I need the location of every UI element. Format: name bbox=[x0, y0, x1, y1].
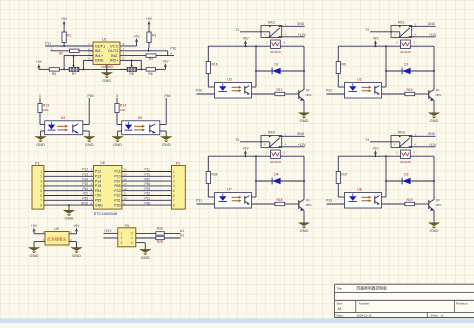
svg-text:4: 4 bbox=[131, 236, 133, 240]
title block bbox=[335, 284, 474, 317]
svg-text:Q1: Q1 bbox=[436, 88, 440, 92]
svg-text:1: 1 bbox=[121, 232, 123, 236]
svg-text:P33: P33 bbox=[145, 187, 151, 191]
svg-text:P10: P10 bbox=[114, 175, 120, 179]
ground (U4 LED) bbox=[35, 131, 46, 147]
svg-text:+5V: +5V bbox=[134, 34, 141, 38]
svg-text:P57: P57 bbox=[145, 177, 151, 181]
svg-text:NPN: NPN bbox=[306, 93, 312, 97]
svg-text:4: 4 bbox=[173, 184, 175, 188]
svg-text:R4: R4 bbox=[149, 57, 153, 61]
node T3 bbox=[235, 138, 239, 142]
wire OUT2 / node P10 bbox=[126, 46, 177, 51]
svg-text:P56: P56 bbox=[114, 184, 120, 188]
relay RK4 coil HK4100 bbox=[266, 150, 286, 164]
svg-text:RK1: RK1 bbox=[398, 21, 405, 25]
svg-text:+5V: +5V bbox=[31, 224, 38, 228]
svg-text:Date:: Date: bbox=[337, 313, 344, 317]
svg-text:R6: R6 bbox=[148, 72, 152, 76]
svg-text:P12: P12 bbox=[95, 170, 101, 174]
svg-text:2: 2 bbox=[173, 175, 175, 179]
ground (U5 emitter) bbox=[160, 131, 172, 147]
node +12V (contact) bbox=[298, 143, 307, 147]
svg-text:Number: Number bbox=[359, 302, 370, 306]
transistor Q3 NPN bbox=[429, 156, 442, 211]
node P30 bbox=[196, 89, 215, 95]
svg-text:7: 7 bbox=[173, 199, 175, 203]
wire coil rail bbox=[338, 45, 434, 47]
svg-text:HK4100: HK4100 bbox=[270, 160, 281, 164]
ground (Q3 emitter) bbox=[429, 211, 440, 234]
svg-text:GND: GND bbox=[428, 22, 436, 26]
svg-text:R19: R19 bbox=[406, 198, 412, 202]
node +12V (contact) bbox=[429, 33, 438, 37]
wire opto collector to rail bbox=[382, 46, 387, 87]
svg-text:13: 13 bbox=[123, 182, 127, 186]
svg-text:P1: P1 bbox=[35, 161, 39, 165]
ground (U9 pin2) bbox=[29, 238, 46, 258]
svg-text:A4: A4 bbox=[338, 307, 342, 311]
svg-text:D4: D4 bbox=[274, 172, 278, 176]
resistor R1 bbox=[62, 32, 71, 46]
svg-text:GND: GND bbox=[162, 142, 171, 147]
resistor R6 bbox=[146, 68, 165, 77]
svg-text:1: 1 bbox=[40, 170, 42, 174]
node T1 bbox=[235, 28, 239, 32]
mcu U6 STC11W2048 bbox=[93, 161, 122, 216]
svg-text:NPN: NPN bbox=[306, 203, 312, 207]
svg-text:RK3: RK3 bbox=[398, 131, 405, 135]
svg-text:16: 16 bbox=[123, 168, 127, 172]
node T2 bbox=[365, 28, 369, 32]
optocoupler U4 bbox=[45, 116, 83, 135]
resistor R36 bbox=[206, 156, 218, 197]
svg-text:R13: R13 bbox=[43, 104, 49, 108]
svg-text:P2: P2 bbox=[176, 161, 180, 165]
svg-text:8: 8 bbox=[40, 203, 42, 207]
svg-text:5: 5 bbox=[40, 189, 42, 193]
svg-text:GND: GND bbox=[300, 228, 309, 233]
svg-text:R3: R3 bbox=[152, 34, 156, 38]
ground (Q4 emitter) bbox=[299, 211, 310, 234]
svg-text:GND: GND bbox=[85, 142, 94, 147]
node GND (contact) bbox=[297, 22, 305, 26]
resistor R18 bbox=[252, 198, 299, 206]
svg-text:+12V: +12V bbox=[429, 33, 438, 37]
svg-text:GND: GND bbox=[81, 201, 89, 205]
svg-text:GND: GND bbox=[72, 253, 81, 258]
svg-text:R17: R17 bbox=[276, 88, 282, 92]
svg-text:GND: GND bbox=[141, 255, 150, 260]
wire opto collector to rail bbox=[252, 156, 257, 197]
wire U6 pin12 to P2 (P33) bbox=[122, 187, 172, 191]
ground (Q1 emitter) bbox=[429, 101, 440, 124]
wire P1-1 to U6 (P12) bbox=[44, 168, 94, 172]
power +5V (RK4 coil) bbox=[242, 146, 249, 156]
svg-text:P55: P55 bbox=[95, 199, 101, 203]
svg-text:12: 12 bbox=[123, 187, 127, 191]
svg-text:T2: T2 bbox=[365, 28, 369, 32]
svg-text:P10: P10 bbox=[145, 173, 151, 177]
resistor R9 bbox=[336, 46, 346, 87]
svg-text:P31: P31 bbox=[145, 197, 151, 201]
transistor Q2 NPN bbox=[299, 46, 312, 101]
wire coil rail bbox=[208, 155, 304, 157]
svg-text:+12V: +12V bbox=[429, 143, 438, 147]
svg-text:P55: P55 bbox=[82, 197, 88, 201]
resistor R37 bbox=[336, 156, 348, 197]
node P33 bbox=[326, 199, 345, 205]
svg-text:U9: U9 bbox=[54, 227, 59, 231]
power +5V (U9 pin1) bbox=[31, 224, 45, 234]
svg-text:P11: P11 bbox=[145, 168, 151, 172]
svg-text:Q4: Q4 bbox=[306, 198, 310, 202]
ground (U5 LED) bbox=[112, 131, 123, 147]
resistor R5 bbox=[49, 68, 69, 77]
svg-text:U2: U2 bbox=[357, 78, 362, 82]
resistor R28 bbox=[136, 227, 184, 235]
wire U6 pin13 to P2 (P56) bbox=[122, 182, 172, 186]
svg-text:6: 6 bbox=[173, 194, 175, 198]
svg-text:NPN: NPN bbox=[436, 203, 442, 207]
wire U6 pin16 to P2 (P11) bbox=[122, 168, 172, 172]
svg-text:Size: Size bbox=[337, 302, 343, 306]
svg-text:R28: R28 bbox=[157, 227, 163, 231]
transistor Q1 NPN bbox=[429, 46, 442, 101]
node P53 bbox=[83, 94, 94, 125]
svg-text:GND: GND bbox=[30, 253, 39, 258]
svg-text:P33: P33 bbox=[114, 189, 120, 193]
svg-text:of: of bbox=[441, 313, 444, 317]
svg-text:U4: U4 bbox=[61, 116, 66, 120]
svg-text:4: 4 bbox=[40, 184, 42, 188]
resistor R17 bbox=[252, 88, 299, 96]
module U9 (IR receiver) bbox=[45, 227, 69, 245]
svg-text:四路继电器控制板: 四路继电器控制板 bbox=[357, 286, 388, 291]
svg-text:3: 3 bbox=[116, 94, 118, 98]
resistor R19 bbox=[382, 198, 429, 206]
wire P1-8 to U6 (GND) bbox=[44, 201, 94, 205]
optocoupler U7 bbox=[215, 188, 252, 209]
svg-text:11: 11 bbox=[123, 192, 126, 196]
svg-text:P32: P32 bbox=[326, 89, 332, 93]
svg-text:+12V: +12V bbox=[298, 33, 307, 37]
svg-text:A2: A2 bbox=[180, 234, 184, 238]
svg-text:+5V: +5V bbox=[36, 60, 43, 64]
optocoupler U2 bbox=[345, 78, 382, 99]
svg-text:GND: GND bbox=[36, 142, 45, 147]
svg-text:14: 14 bbox=[123, 177, 127, 181]
svg-text:Sheet: Sheet bbox=[430, 313, 438, 317]
svg-text:+5V: +5V bbox=[95, 194, 102, 198]
wire U6 pin11 to P2 (P32) bbox=[122, 192, 172, 196]
resistor R16 bbox=[206, 46, 218, 87]
wire GND pin4 bbox=[83, 60, 93, 69]
svg-text:P30: P30 bbox=[196, 89, 202, 93]
svg-text:8: 8 bbox=[173, 203, 175, 207]
resistor R13 10K bbox=[38, 104, 50, 125]
svg-text:5: 5 bbox=[121, 241, 123, 245]
svg-text:GND: GND bbox=[297, 22, 305, 26]
node GND (contact) bbox=[428, 22, 436, 26]
svg-text:R16: R16 bbox=[212, 63, 218, 67]
svg-text:2: 2 bbox=[131, 232, 133, 236]
node GND (contact) bbox=[297, 132, 305, 136]
svg-text:10K: 10K bbox=[43, 108, 49, 112]
relay RK3 coil HK4100 bbox=[396, 150, 416, 164]
wire IN1+ bbox=[64, 55, 93, 70]
svg-text:R29: R29 bbox=[157, 240, 163, 244]
wire U6 pin9 to P2 (P30) bbox=[122, 201, 172, 205]
power +5V (divider left) bbox=[36, 60, 49, 69]
svg-text:R18: R18 bbox=[276, 198, 282, 202]
svg-text:GND: GND bbox=[65, 216, 74, 221]
diode D3 bbox=[386, 172, 435, 184]
transistor Q4 NPN bbox=[299, 156, 312, 211]
svg-text:15: 15 bbox=[123, 173, 127, 177]
svg-text:+12V: +12V bbox=[104, 229, 113, 233]
svg-text:T1: T1 bbox=[235, 28, 239, 32]
svg-text:P31: P31 bbox=[114, 199, 120, 203]
relay RK1 contacts bbox=[370, 21, 436, 38]
wire U6 pin10 to P2 (P31) bbox=[122, 197, 172, 201]
resistor R15 bbox=[382, 88, 429, 96]
svg-text:STC11W2048: STC11W2048 bbox=[94, 212, 118, 216]
svg-text:GND: GND bbox=[297, 132, 305, 136]
power +5V (U1 VCC) bbox=[126, 34, 141, 46]
svg-text:P30: P30 bbox=[114, 203, 120, 207]
power +5V (RK3 coil) bbox=[372, 146, 379, 156]
power +5V (RK1 coil) bbox=[372, 36, 379, 46]
svg-text:R36: R36 bbox=[212, 173, 218, 177]
bottom strip bbox=[0, 318, 474, 323]
svg-text:U5: U5 bbox=[138, 116, 143, 120]
resistor R3 bbox=[146, 17, 156, 51]
wire P1-2 to U6 (P13) bbox=[44, 173, 94, 177]
relay RK2 contacts bbox=[240, 21, 305, 38]
ground (U1) bbox=[101, 64, 112, 83]
svg-text:GND: GND bbox=[300, 118, 309, 123]
op-amp U1 LM393 bbox=[88, 37, 126, 69]
svg-text:HK4100: HK4100 bbox=[270, 50, 281, 54]
wire +12V to P5 bbox=[103, 229, 117, 238]
wire P1-7 to U6 (P55) bbox=[44, 197, 94, 201]
svg-text:P33: P33 bbox=[326, 199, 332, 203]
svg-text:6: 6 bbox=[40, 194, 42, 198]
svg-text:P54: P54 bbox=[82, 187, 88, 191]
ground (Q2 emitter) bbox=[299, 101, 310, 124]
svg-text:P53: P53 bbox=[88, 94, 94, 98]
wire divider-left to GND rail bbox=[79, 68, 127, 70]
wire P1-5 to U6 (P54) bbox=[44, 187, 94, 191]
connector P5 bbox=[118, 224, 136, 247]
wire U6 pin14 to P2 (P57) bbox=[122, 177, 172, 181]
resistor R4 bbox=[126, 51, 175, 61]
svg-text:R5: R5 bbox=[52, 72, 56, 76]
svg-text:Revision: Revision bbox=[456, 302, 468, 306]
svg-text:GND: GND bbox=[428, 132, 436, 136]
svg-text:+5V: +5V bbox=[162, 59, 169, 63]
svg-text:红外接收头: 红外接收头 bbox=[47, 236, 67, 241]
svg-text:U7: U7 bbox=[227, 188, 232, 192]
svg-text:6: 6 bbox=[131, 241, 133, 245]
node 1 bbox=[39, 94, 41, 104]
svg-text:HK4100: HK4100 bbox=[400, 160, 411, 164]
svg-text:GND: GND bbox=[95, 203, 103, 207]
svg-text:R7: R7 bbox=[72, 72, 76, 76]
power +5V (RK2 coil) bbox=[242, 36, 249, 46]
resistor R14 10K bbox=[115, 104, 127, 125]
svg-text:3: 3 bbox=[40, 179, 42, 183]
resistor R2 bbox=[59, 49, 79, 56]
svg-text:Q3: Q3 bbox=[436, 198, 440, 202]
svg-text:P54: P54 bbox=[165, 94, 171, 98]
svg-text:+5V: +5V bbox=[82, 192, 89, 196]
svg-text:+5V: +5V bbox=[73, 224, 80, 228]
wire IN2+ bbox=[126, 59, 142, 69]
svg-text:R1: R1 bbox=[67, 34, 71, 38]
node +12V (contact) bbox=[298, 33, 307, 37]
svg-text:P15: P15 bbox=[82, 182, 88, 186]
svg-text:U8: U8 bbox=[357, 188, 362, 192]
svg-text:5: 5 bbox=[173, 189, 175, 193]
svg-text:GND: GND bbox=[113, 142, 122, 147]
optocoupler U3 bbox=[215, 78, 252, 99]
svg-text:GND: GND bbox=[95, 58, 104, 63]
ground (P5 pin6) bbox=[136, 243, 151, 260]
power +5V (divider right) bbox=[162, 59, 169, 69]
svg-text:10K: 10K bbox=[120, 108, 126, 112]
wire IN1- (net 2) bbox=[51, 47, 94, 51]
wire P1-4 to U6 (P15) bbox=[44, 182, 94, 186]
svg-text:R14: R14 bbox=[120, 104, 126, 108]
power +5V (R1 pull-up) bbox=[61, 17, 68, 32]
svg-text:3: 3 bbox=[121, 236, 123, 240]
svg-text:P32: P32 bbox=[114, 194, 120, 198]
optocoupler U5 bbox=[122, 116, 160, 135]
node +12V (contact) bbox=[429, 143, 438, 147]
svg-text:D1: D1 bbox=[404, 62, 408, 66]
power +5V (U9 pin4) bbox=[69, 224, 80, 234]
svg-text:RK2: RK2 bbox=[268, 21, 275, 25]
wire opto collector to rail bbox=[252, 46, 257, 87]
node 3 bbox=[116, 94, 118, 104]
ground (U4 emitter) bbox=[83, 131, 95, 147]
svg-text:GND: GND bbox=[430, 118, 439, 123]
svg-text:HK4100: HK4100 bbox=[400, 50, 411, 54]
svg-text:7: 7 bbox=[40, 199, 42, 203]
optocoupler U8 bbox=[345, 188, 382, 209]
relay RK2 coil HK4100 bbox=[266, 40, 286, 54]
wire P1-3 to U6 (P14) bbox=[44, 177, 94, 181]
svg-text:P14: P14 bbox=[82, 177, 88, 181]
wire opto collector to rail bbox=[382, 156, 387, 197]
svg-text:R9: R9 bbox=[342, 63, 346, 67]
ground (P1 pin8) bbox=[64, 204, 75, 221]
node T4 bbox=[365, 138, 369, 142]
wire coil rail bbox=[208, 45, 304, 47]
connector P1 bbox=[32, 161, 44, 209]
svg-text:P10: P10 bbox=[170, 46, 176, 50]
svg-text:P31: P31 bbox=[196, 199, 202, 203]
node P54 bbox=[160, 94, 171, 125]
relay RK1 coil HK4100 bbox=[396, 40, 416, 54]
svg-text:P30: P30 bbox=[145, 201, 151, 205]
svg-text:1: 1 bbox=[173, 170, 175, 174]
svg-text:R15: R15 bbox=[406, 88, 412, 92]
svg-text:P56: P56 bbox=[145, 182, 151, 186]
node GND (contact) bbox=[428, 132, 436, 136]
svg-text:P57: P57 bbox=[114, 179, 120, 183]
connector P2 bbox=[172, 161, 186, 209]
svg-text:P12: P12 bbox=[82, 168, 88, 172]
svg-text:NPN: NPN bbox=[436, 93, 442, 97]
svg-text:2024-11-16: 2024-11-16 bbox=[357, 313, 372, 317]
svg-text:P15: P15 bbox=[95, 184, 101, 188]
svg-text:A1: A1 bbox=[180, 229, 184, 233]
svg-text:U6: U6 bbox=[100, 161, 105, 165]
svg-text:RK4: RK4 bbox=[268, 131, 275, 135]
svg-text:+5V: +5V bbox=[146, 17, 153, 21]
diode D2 bbox=[256, 62, 305, 74]
svg-text:U3: U3 bbox=[227, 78, 232, 82]
svg-text:U1: U1 bbox=[102, 37, 107, 41]
svg-text:+5V: +5V bbox=[242, 36, 249, 40]
svg-text:P13: P13 bbox=[82, 173, 88, 177]
svg-text:P32: P32 bbox=[145, 192, 151, 196]
node P32 bbox=[326, 89, 345, 95]
svg-text:2: 2 bbox=[40, 175, 42, 179]
node P11 / wire OUT1 bbox=[45, 41, 93, 47]
svg-text:Q2: Q2 bbox=[306, 88, 310, 92]
svg-text:P13: P13 bbox=[95, 175, 101, 179]
svg-text:R37: R37 bbox=[342, 173, 348, 177]
diode D1 bbox=[386, 62, 435, 74]
svg-text:T3: T3 bbox=[235, 138, 239, 142]
wire coil rail bbox=[338, 155, 434, 157]
trimmer R7 bbox=[69, 56, 79, 77]
svg-text:D3: D3 bbox=[404, 172, 408, 176]
svg-text:D2: D2 bbox=[274, 62, 278, 66]
svg-text:GND: GND bbox=[102, 78, 111, 83]
svg-text:+5V: +5V bbox=[61, 17, 68, 21]
diode D4 bbox=[256, 172, 305, 184]
svg-text:+5V: +5V bbox=[242, 146, 249, 150]
svg-text:1: 1 bbox=[39, 94, 41, 98]
svg-text:GND: GND bbox=[430, 228, 439, 233]
svg-text:P54: P54 bbox=[95, 189, 101, 193]
svg-text:3: 3 bbox=[173, 179, 175, 183]
relay RK4 contacts bbox=[240, 131, 305, 148]
svg-text:P11: P11 bbox=[114, 170, 120, 174]
svg-text:IN2+: IN2+ bbox=[110, 58, 119, 63]
resistor R29 bbox=[136, 234, 184, 244]
wire P1-6 to U6 (+5V) bbox=[44, 192, 94, 196]
svg-text:P11: P11 bbox=[45, 41, 51, 45]
ground (U9 pin3) bbox=[69, 238, 82, 258]
svg-text:R8: R8 bbox=[129, 72, 133, 76]
relay RK3 contacts bbox=[370, 131, 436, 148]
svg-text:+12V: +12V bbox=[298, 143, 307, 147]
node P31 bbox=[196, 199, 215, 205]
svg-text:R2: R2 bbox=[59, 52, 63, 56]
svg-text:T4: T4 bbox=[365, 138, 369, 142]
svg-text:10: 10 bbox=[123, 197, 127, 201]
svg-text:+5V: +5V bbox=[372, 36, 379, 40]
trimmer R8 bbox=[120, 60, 146, 76]
svg-text:Title: Title bbox=[337, 286, 343, 290]
svg-text:P14: P14 bbox=[95, 179, 101, 183]
